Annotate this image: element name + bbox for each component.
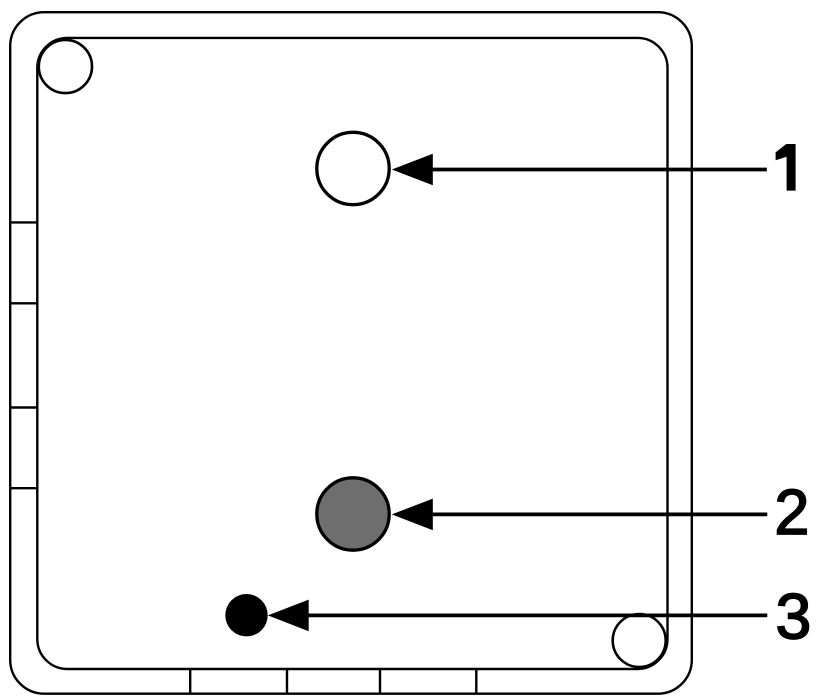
arrowhead 3 [268,600,309,632]
part 1 circle (white hole) [317,132,389,204]
bottom-right corner circle [613,614,666,667]
leader line 1 [429,168,767,172]
top-left corner circle [39,40,92,93]
leader line 3 [305,614,767,618]
left wall tick 4 [10,487,37,489]
part 2 circle (gray button) [317,478,389,550]
left wall tick 2 [10,302,37,304]
svg-text:2: 2 [774,476,809,548]
bottom wall tick 1 [189,669,191,694]
bottom wall tick 2 [286,669,288,694]
inner case wall [37,38,667,669]
left wall tick 1 [10,221,37,223]
left wall tick 3 [10,406,37,408]
part 3 dot (black) [225,594,267,636]
leader line 2 [429,513,767,517]
svg-text:3: 3 [776,581,812,653]
arrowhead 2 [392,499,433,531]
bottom wall tick 3 [379,669,381,694]
arrowhead 1 [392,154,433,186]
bottom wall tick 4 [475,669,477,694]
label 1 [776,144,796,191]
